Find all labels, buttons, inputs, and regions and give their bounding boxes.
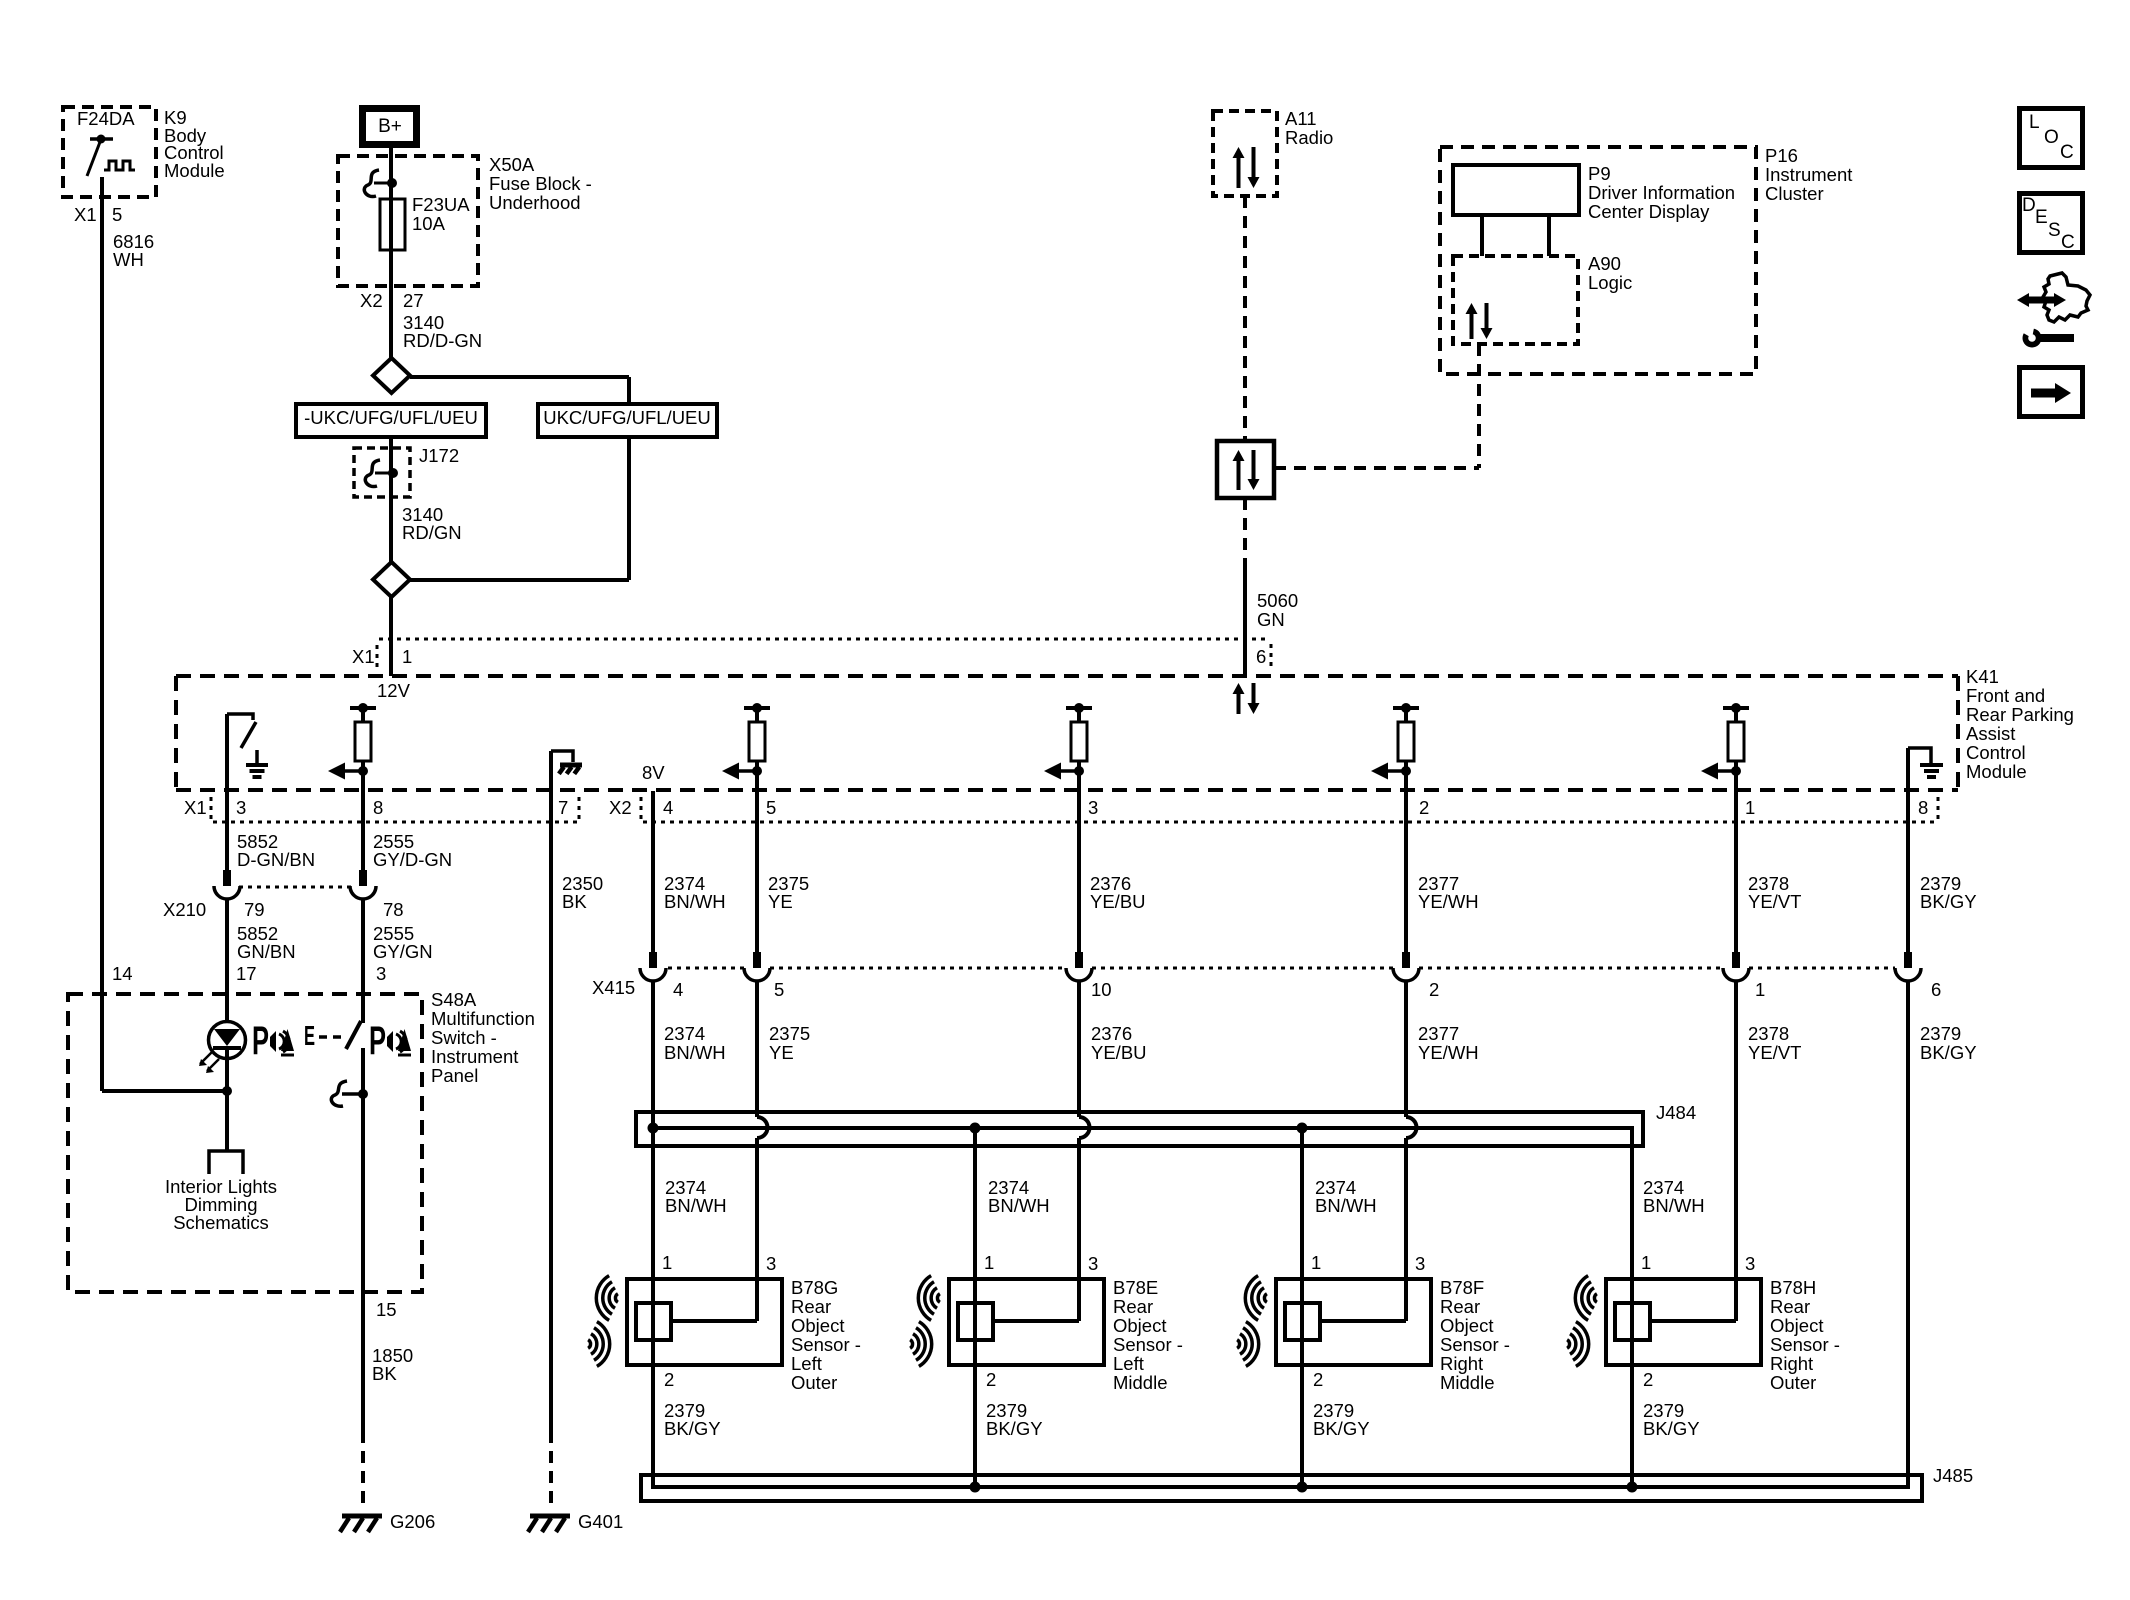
svg-text:8: 8	[1918, 797, 1928, 818]
svg-text:8V: 8V	[642, 762, 665, 783]
svg-text:BN/WH: BN/WH	[664, 1042, 726, 1063]
svg-text:Object: Object	[1113, 1315, 1166, 1336]
svg-text:Module: Module	[1966, 761, 2027, 782]
svg-text:Sensor -: Sensor -	[1770, 1334, 1840, 1355]
svg-text:O: O	[2044, 127, 2059, 148]
svg-text:2: 2	[1313, 1369, 1323, 1390]
svg-text:Control: Control	[1966, 742, 2026, 763]
svg-text:X1: X1	[352, 646, 375, 667]
svg-text:D-GN/BN: D-GN/BN	[237, 849, 315, 870]
svg-text:3: 3	[1745, 1253, 1755, 1274]
svg-text:Right: Right	[1770, 1353, 1813, 1374]
svg-text:RD/GN: RD/GN	[402, 522, 462, 543]
svg-text:B78G: B78G	[791, 1277, 838, 1298]
svg-text:B+: B+	[378, 116, 402, 137]
svg-text:1: 1	[984, 1252, 994, 1273]
svg-text:Instrument: Instrument	[1765, 164, 1852, 185]
svg-text:X2: X2	[360, 290, 383, 311]
svg-text:GY/D-GN: GY/D-GN	[373, 849, 452, 870]
svg-text:10A: 10A	[412, 213, 446, 234]
svg-text:P: P	[252, 1019, 269, 1063]
svg-text:Panel: Panel	[431, 1065, 478, 1086]
svg-text:4: 4	[663, 797, 673, 818]
svg-text:P9: P9	[1588, 163, 1611, 184]
svg-text:S48A: S48A	[431, 989, 477, 1010]
svg-text:1: 1	[1641, 1252, 1651, 1273]
svg-text:BN/WH: BN/WH	[1315, 1195, 1377, 1216]
svg-text:Left: Left	[791, 1353, 822, 1374]
svg-text:2: 2	[1419, 797, 1429, 818]
svg-text:Switch -: Switch -	[431, 1027, 497, 1048]
svg-text:5: 5	[774, 979, 784, 1000]
svg-text:GY/GN: GY/GN	[373, 941, 433, 962]
svg-text:14: 14	[112, 963, 133, 984]
svg-text:Rear: Rear	[791, 1296, 831, 1317]
svg-text:Outer: Outer	[1770, 1372, 1816, 1393]
svg-text:RD/D-GN: RD/D-GN	[403, 330, 482, 351]
svg-text:J484: J484	[1656, 1102, 1696, 1123]
svg-text:2375: 2375	[769, 1023, 810, 1044]
svg-text:BK/GY: BK/GY	[1313, 1418, 1370, 1439]
svg-text:BK: BK	[562, 891, 587, 912]
svg-text:Schematics: Schematics	[173, 1212, 269, 1233]
svg-text:2379: 2379	[1920, 1023, 1961, 1044]
svg-text:X415: X415	[592, 977, 635, 998]
svg-text:J485: J485	[1933, 1465, 1973, 1486]
svg-text:BN/WH: BN/WH	[664, 891, 726, 912]
svg-text:BN/WH: BN/WH	[1643, 1195, 1705, 1216]
svg-text:B78H: B78H	[1770, 1277, 1816, 1298]
svg-text:X1: X1	[74, 204, 97, 225]
svg-text:Cluster: Cluster	[1765, 183, 1824, 204]
svg-text:2378: 2378	[1748, 1023, 1789, 1044]
svg-text:C: C	[2060, 142, 2074, 163]
svg-text:27: 27	[403, 290, 424, 311]
svg-text:2: 2	[1429, 979, 1439, 1000]
svg-text:J172: J172	[419, 445, 459, 466]
svg-text:7: 7	[558, 797, 568, 818]
svg-text:79: 79	[244, 899, 265, 920]
svg-text:5: 5	[766, 797, 776, 818]
svg-text:2: 2	[664, 1369, 674, 1390]
svg-text:YE/VT: YE/VT	[1748, 891, 1801, 912]
svg-text:YE/BU: YE/BU	[1091, 1042, 1147, 1063]
svg-text:Logic: Logic	[1588, 272, 1632, 293]
svg-text:Rear: Rear	[1440, 1296, 1480, 1317]
svg-text:BN/WH: BN/WH	[988, 1195, 1050, 1216]
svg-text:2377: 2377	[1418, 1023, 1459, 1044]
svg-text:2: 2	[986, 1369, 996, 1390]
svg-text:4: 4	[673, 979, 683, 1000]
svg-text:BK/GY: BK/GY	[1643, 1418, 1700, 1439]
svg-text:C: C	[2061, 232, 2075, 253]
svg-text:1: 1	[402, 646, 412, 667]
svg-text:6: 6	[1931, 979, 1941, 1000]
svg-text:78: 78	[383, 899, 404, 920]
svg-text:B78F: B78F	[1440, 1277, 1484, 1298]
svg-text:YE/VT: YE/VT	[1748, 1042, 1801, 1063]
svg-text:G401: G401	[578, 1511, 623, 1532]
svg-text:Assist: Assist	[1966, 723, 2015, 744]
svg-text:A90: A90	[1588, 253, 1621, 274]
svg-text:Sensor -: Sensor -	[1440, 1334, 1510, 1355]
svg-text:K41: K41	[1966, 666, 1999, 687]
svg-text:Instrument: Instrument	[431, 1046, 518, 1067]
svg-text:6: 6	[1256, 646, 1266, 667]
svg-text:Middle: Middle	[1440, 1372, 1495, 1393]
svg-text:12V: 12V	[377, 680, 411, 701]
svg-text:Underhood: Underhood	[489, 192, 581, 213]
svg-text:Center Display: Center Display	[1588, 201, 1710, 222]
svg-text:2374: 2374	[664, 1023, 705, 1044]
svg-text:BN/WH: BN/WH	[665, 1195, 727, 1216]
svg-text:Sensor -: Sensor -	[1113, 1334, 1183, 1355]
svg-text:Module: Module	[164, 160, 225, 181]
svg-text:Object: Object	[1440, 1315, 1493, 1336]
svg-text:Right: Right	[1440, 1353, 1483, 1374]
svg-text:3: 3	[1088, 1253, 1098, 1274]
svg-text:Left: Left	[1113, 1353, 1144, 1374]
svg-text:F23UA: F23UA	[412, 194, 470, 215]
svg-text:17: 17	[236, 963, 257, 984]
svg-text:L: L	[2029, 112, 2040, 133]
svg-text:YE: YE	[768, 891, 793, 912]
svg-text:Middle: Middle	[1113, 1372, 1168, 1393]
svg-text:BK/GY: BK/GY	[1920, 1042, 1977, 1063]
svg-text:X1: X1	[184, 797, 207, 818]
svg-text:Object: Object	[1770, 1315, 1823, 1336]
svg-text:F24DA: F24DA	[77, 108, 135, 129]
svg-text:BK/GY: BK/GY	[664, 1418, 721, 1439]
svg-text:P16: P16	[1765, 145, 1798, 166]
svg-text:8: 8	[373, 797, 383, 818]
svg-text:BK/GY: BK/GY	[1920, 891, 1977, 912]
svg-text:Rear: Rear	[1113, 1296, 1153, 1317]
svg-text:X50A: X50A	[489, 154, 535, 175]
svg-text:Fuse Block -: Fuse Block -	[489, 173, 592, 194]
svg-text:1: 1	[1311, 1252, 1321, 1273]
svg-text:5060: 5060	[1257, 590, 1298, 611]
svg-text:3: 3	[376, 963, 386, 984]
svg-text:BK: BK	[372, 1363, 397, 1384]
svg-text:1: 1	[662, 1252, 672, 1273]
svg-text:X210: X210	[163, 899, 206, 920]
svg-text:Radio: Radio	[1285, 127, 1333, 148]
svg-text:3: 3	[1415, 1253, 1425, 1274]
svg-text:YE/BU: YE/BU	[1090, 891, 1146, 912]
svg-text:Object: Object	[791, 1315, 844, 1336]
svg-text:5: 5	[112, 204, 122, 225]
svg-text:1: 1	[1755, 979, 1765, 1000]
svg-text:Rear Parking: Rear Parking	[1966, 704, 2074, 725]
svg-text:S: S	[2048, 220, 2061, 241]
svg-text:G206: G206	[390, 1511, 435, 1532]
svg-text:2: 2	[1643, 1369, 1653, 1390]
svg-text:GN/BN: GN/BN	[237, 941, 296, 962]
svg-text:15: 15	[376, 1299, 397, 1320]
svg-text:3: 3	[1088, 797, 1098, 818]
svg-text:Multifunction: Multifunction	[431, 1008, 535, 1029]
svg-text:BK/GY: BK/GY	[986, 1418, 1043, 1439]
svg-text:UKC/UFG/UFL/UEU: UKC/UFG/UFL/UEU	[543, 407, 711, 428]
svg-text:3: 3	[236, 797, 246, 818]
svg-text:E: E	[304, 1020, 315, 1051]
svg-text:A11: A11	[1285, 108, 1317, 129]
svg-text:X2: X2	[609, 797, 632, 818]
svg-text:E: E	[2035, 207, 2048, 228]
svg-text:YE: YE	[769, 1042, 794, 1063]
svg-text:2376: 2376	[1091, 1023, 1132, 1044]
svg-text:YE/WH: YE/WH	[1418, 891, 1479, 912]
svg-text:10: 10	[1091, 979, 1112, 1000]
svg-text:WH: WH	[113, 249, 144, 270]
svg-text:YE/WH: YE/WH	[1418, 1042, 1479, 1063]
svg-text:3: 3	[766, 1253, 776, 1274]
svg-text:Driver Information: Driver Information	[1588, 182, 1735, 203]
svg-text:Outer: Outer	[791, 1372, 837, 1393]
svg-text:D: D	[2022, 195, 2036, 216]
svg-text:-UKC/UFG/UFL/UEU: -UKC/UFG/UFL/UEU	[304, 407, 478, 428]
svg-text:P: P	[369, 1019, 386, 1063]
svg-text:GN: GN	[1257, 609, 1285, 630]
svg-text:Front and: Front and	[1966, 685, 2045, 706]
svg-text:1: 1	[1745, 797, 1755, 818]
svg-text:Rear: Rear	[1770, 1296, 1810, 1317]
svg-text:Sensor -: Sensor -	[791, 1334, 861, 1355]
svg-text:B78E: B78E	[1113, 1277, 1158, 1298]
